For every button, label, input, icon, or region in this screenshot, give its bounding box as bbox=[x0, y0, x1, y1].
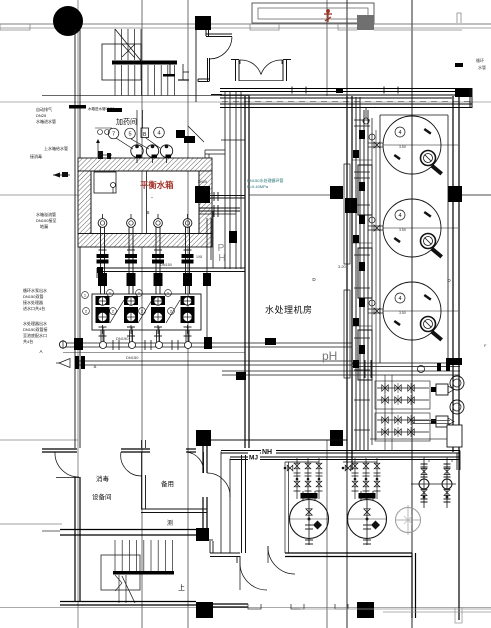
tank hatch right band bbox=[199, 171, 212, 234]
tank room left wall bbox=[346, 96, 348, 470]
svg-text:水管: 水管 bbox=[478, 64, 486, 70]
NH label bbox=[261, 446, 276, 455]
section mark right of stair bbox=[182, 64, 184, 80]
header pipe 3 dashes bbox=[222, 101, 472, 103]
dosing vertical pipes bbox=[384, 375, 386, 450]
riser header left drop bbox=[96, 268, 98, 278]
pipes joining right bbox=[352, 362, 460, 364]
tank T2 actuator bbox=[421, 234, 436, 249]
manifold black block big bbox=[345, 198, 357, 213]
corridor wall from column bbox=[209, 539, 213, 541]
small mark right top bbox=[455, 63, 463, 67]
valve stack pump2 a bbox=[354, 458, 356, 499]
gray jog bottom right bbox=[455, 607, 462, 623]
svg-text:水箱溢流管: 水箱溢流管 bbox=[36, 211, 56, 217]
valve stack pump2 c bbox=[376, 458, 378, 499]
instrument leader lines bbox=[116, 138, 133, 149]
svg-text:循环水泵出水: 循环水泵出水 bbox=[23, 287, 47, 293]
partition hall door arc bbox=[207, 473, 230, 497]
vestibule wall horizontal bbox=[206, 33, 232, 35]
grid line horizontal y524 left bbox=[0, 523, 62, 525]
tank T3 tick SW bbox=[394, 320, 401, 326]
staircase break diagonal bbox=[115, 29, 142, 62]
svg-text:DN150双管: DN150双管 bbox=[23, 293, 43, 299]
suction header flange circles bbox=[100, 342, 107, 349]
svg-text:4: 4 bbox=[398, 130, 401, 136]
main room bottom line y440 bbox=[211, 439, 347, 441]
svg-text:平衡水箱: 平衡水箱 bbox=[140, 180, 174, 190]
header drop with flange circle bbox=[365, 108, 367, 118]
wall line below top column bbox=[195, 30, 197, 102]
svg-text:NH: NH bbox=[262, 449, 272, 456]
staircase chevrons bbox=[115, 575, 122, 583]
svg-text:4: 4 bbox=[157, 131, 160, 137]
tank T2 tick SW bbox=[394, 237, 401, 243]
column marker stair x203 y534 bbox=[196, 528, 209, 541]
manifold vertical pipes bbox=[355, 97, 357, 450]
manifold flange circles bbox=[369, 134, 375, 140]
tank T3 tick NE bbox=[424, 294, 432, 301]
vestibule door arc bbox=[210, 37, 233, 59]
black valves tank top right bbox=[176, 130, 185, 138]
svg-text:备用: 备用 bbox=[161, 479, 174, 488]
svg-text:A: A bbox=[94, 364, 97, 369]
tank T3 actuator bbox=[421, 317, 436, 332]
dosing manifold row 2a bbox=[377, 419, 429, 421]
gray cross pump spare bbox=[404, 516, 412, 524]
tank circle T2 bbox=[383, 199, 441, 257]
vestibule lower wall bbox=[207, 58, 209, 81]
circled 2 labels bbox=[83, 308, 90, 315]
staircase bottom risers bbox=[114, 540, 116, 571]
MJ label bbox=[248, 453, 260, 461]
tank room inner rect bbox=[379, 115, 381, 363]
column marker bottom edge x365 bbox=[357, 602, 374, 618]
tank right taps lower bbox=[199, 207, 240, 209]
double door threshold bbox=[239, 80, 283, 82]
NH pipe right downturn bbox=[456, 453, 458, 470]
svg-text:-: - bbox=[151, 195, 153, 201]
riser lower stubs bbox=[100, 330, 102, 343]
svg-text:DN150: DN150 bbox=[126, 355, 139, 360]
pump spare gray circle bbox=[396, 508, 421, 533]
grid line vertical x327 top bbox=[326, 0, 328, 96]
tank T2 tick NE bbox=[424, 211, 432, 218]
svg-text:DN25: DN25 bbox=[36, 113, 47, 118]
door arc disinfection room bbox=[121, 452, 142, 476]
staircase bottom lower risers bbox=[118, 575, 120, 603]
svg-text:MJ: MJ bbox=[249, 455, 258, 462]
black dash on west wall bbox=[69, 105, 86, 109]
staircase bottom outline bbox=[101, 555, 140, 590]
svg-text:DN25: DN25 bbox=[198, 180, 207, 184]
valve stack pump1 b bbox=[307, 458, 309, 499]
svg-text:4: 4 bbox=[398, 213, 401, 219]
staircase top-left upper risers bbox=[114, 29, 116, 60]
svg-text:进水口共4台: 进水口共4台 bbox=[23, 305, 45, 311]
tank T1 handle bbox=[430, 164, 443, 175]
gray jog top right bbox=[457, 13, 461, 23]
tank right taps upper bbox=[209, 195, 245, 197]
bottom wall center segments bbox=[213, 603, 248, 605]
svg-text:H: H bbox=[218, 253, 225, 264]
wall right of door bbox=[284, 462, 286, 553]
svg-text:1X8: 1X8 bbox=[196, 255, 202, 259]
valve stack pump1 a bbox=[296, 458, 298, 499]
hall east wall pair bbox=[241, 455, 243, 553]
main room top wall line bbox=[211, 94, 222, 96]
threshold marks bottom bbox=[248, 604, 261, 609]
manifold chase rect 3 bbox=[358, 330, 372, 380]
tank room right wall bbox=[452, 96, 454, 452]
grid line vertical x327 bottom bbox=[326, 440, 328, 628]
svg-text:5: 5 bbox=[128, 132, 131, 138]
staircase top-left outline bbox=[102, 44, 141, 80]
tank black block right wall bbox=[195, 186, 210, 203]
open rect right wall bbox=[447, 425, 462, 447]
suction header pipe bbox=[60, 342, 352, 344]
tank T1 actuator bbox=[421, 151, 436, 166]
middle thin pipe line bbox=[63, 352, 245, 354]
pump risers through hatch bbox=[100, 227, 102, 294]
svg-text:B: B bbox=[143, 132, 147, 138]
dose pump axis line bbox=[411, 483, 456, 485]
pump P1 circle bbox=[290, 500, 329, 539]
pump P2 circle bbox=[348, 500, 387, 539]
svg-text:o: o bbox=[428, 459, 430, 463]
west door arc bbox=[55, 452, 79, 477]
suction header valve bbox=[74, 338, 83, 350]
third pipe to right bbox=[222, 370, 460, 372]
grid line horizontal y440 left bbox=[0, 439, 78, 441]
svg-text:3.50: 3.50 bbox=[399, 228, 406, 232]
grid line horizontal y96 bbox=[42, 95, 250, 97]
tank T2 label circled 4 bbox=[395, 210, 405, 220]
partition pair stub above wall bbox=[141, 440, 143, 448]
stair landing glyph bbox=[169, 62, 171, 76]
circled 1 labels bbox=[82, 292, 89, 299]
door arc spare room bbox=[186, 452, 204, 473]
small pipe left of tank bbox=[97, 140, 99, 158]
pump unit internals bbox=[96, 296, 110, 305]
column marker bottom wall x336 bbox=[330, 430, 343, 446]
bottom wall left bbox=[60, 601, 196, 603]
branch bowtie pump2 bbox=[345, 465, 351, 471]
suction header tick pairs bbox=[112, 340, 114, 350]
dose pump D1 bbox=[423, 460, 425, 508]
header pipe 2 bbox=[220, 94, 472, 96]
manifold black marks bbox=[359, 130, 365, 139]
gray wall stub A bbox=[250, 24, 279, 30]
svg-text:DN150: DN150 bbox=[116, 336, 129, 341]
tank hatch top band bbox=[78, 158, 212, 171]
column marker bottom edge x204 bbox=[196, 602, 213, 618]
svg-text:B: B bbox=[146, 210, 149, 215]
tank T2 horizontal axis bbox=[383, 227, 458, 229]
manifold long chase left bbox=[344, 164, 350, 264]
column marker bottom wall x203 bbox=[196, 430, 211, 446]
staircase bottom tread bar bbox=[113, 571, 174, 575]
grid line vertical x142 bbox=[141, 0, 143, 628]
partition pair below door bbox=[141, 475, 143, 509]
roof outline rect inner bbox=[258, 8, 368, 19]
NH pipe bbox=[221, 450, 460, 452]
tank T3 handle bbox=[430, 330, 443, 341]
staircase top-left lower risers bbox=[114, 65, 116, 96]
gray wall stub C left edge bbox=[0, 24, 30, 30]
svg-text:3.50: 3.50 bbox=[399, 311, 406, 315]
grid line horizontal y608 bbox=[0, 607, 491, 609]
dosing manifold box 2 bbox=[375, 413, 430, 441]
long wall y553 bbox=[285, 552, 412, 554]
tank inner rect bbox=[91, 171, 199, 234]
staircase top-left tread bar bbox=[112, 61, 177, 65]
staircase bottom diagonal bbox=[122, 576, 135, 603]
svg-text:DN100接至: DN100接至 bbox=[36, 217, 56, 223]
tank T3 label circled 4 bbox=[395, 293, 405, 303]
tank T2 handle bbox=[430, 247, 443, 258]
manifold tick rows bbox=[354, 119, 370, 121]
red figure bbox=[324, 10, 332, 22]
discharge header arrow end bbox=[59, 359, 70, 368]
corridor wall y451 segment A bbox=[42, 448, 77, 450]
suction header end circle bbox=[59, 341, 66, 348]
svg-text:水箱进水管: 水箱进水管 bbox=[36, 118, 56, 124]
discharge header valve bbox=[75, 356, 79, 369]
column marker tank room y194 bbox=[448, 186, 462, 202]
dose pump D2 bbox=[446, 460, 448, 508]
tank T1 tick SW bbox=[394, 154, 401, 160]
manifold crossties bbox=[352, 159, 372, 161]
svg-text:消毒: 消毒 bbox=[96, 474, 110, 483]
tank hatch bottom band bbox=[78, 234, 212, 248]
tank T3 horizontal axis bbox=[383, 310, 458, 312]
header valve tick 1 bbox=[336, 88, 343, 93]
dosing manifold row 1b bbox=[377, 399, 429, 401]
tank divider bbox=[146, 171, 148, 234]
instrument circles row bbox=[131, 145, 143, 157]
riser header DN150 bbox=[97, 267, 245, 269]
svg-text:至池底配水口: 至池底配水口 bbox=[23, 332, 47, 338]
grid line vertical x188 bbox=[187, 0, 189, 628]
roof outline rect outer bbox=[252, 3, 374, 23]
corridor wall y451 segment B bbox=[121, 448, 150, 450]
black dash above label bbox=[107, 108, 122, 112]
small valve pair top bbox=[95, 127, 112, 129]
svg-text:A: A bbox=[39, 349, 42, 354]
tank T1 label circled 4 bbox=[395, 127, 405, 137]
pump units outer rect bbox=[92, 294, 201, 330]
svg-text:水处理器出水: 水处理器出水 bbox=[23, 320, 47, 326]
double door left leaf arc bbox=[240, 60, 261, 75]
svg-text:测: 测 bbox=[167, 519, 173, 527]
header pipe 3 bbox=[220, 103, 472, 105]
valve stack pump2 b bbox=[365, 458, 367, 499]
dosing funnels bbox=[450, 376, 464, 390]
door arc bottom 2 bbox=[268, 546, 295, 574]
circled 4 top bbox=[154, 127, 165, 138]
vestibule bottom stub bbox=[198, 78, 210, 80]
grid line horizontal y24 bbox=[0, 23, 491, 25]
boxed B bbox=[141, 128, 149, 138]
double door jamb left bbox=[235, 60, 237, 82]
wall pair below circle bbox=[74, 29, 76, 448]
column marker main room y192 bbox=[330, 186, 343, 199]
svg-text:4: 4 bbox=[398, 296, 401, 302]
corridor wall y451 segment C bbox=[186, 448, 196, 450]
dosing manifold row 2b bbox=[377, 431, 429, 433]
door arc bottom 1 bbox=[240, 563, 267, 590]
manifold extra black marks bbox=[353, 150, 359, 158]
svg-text:DN150双管接: DN150双管接 bbox=[23, 326, 47, 332]
ce wall thin extension left bbox=[42, 530, 60, 532]
gray wall stub B bbox=[338, 24, 357, 30]
wall x412 bottom bbox=[411, 553, 413, 618]
manifold chase rect 1 bbox=[358, 165, 372, 215]
svg-text:加药间: 加药间 bbox=[116, 117, 137, 126]
svg-text:P=0.40MPa: P=0.40MPa bbox=[247, 184, 269, 189]
partition wall x205 lower bbox=[202, 497, 204, 530]
svg-text:pH: pH bbox=[322, 349, 337, 363]
svg-text:共4台: 共4台 bbox=[23, 338, 33, 344]
gray column square top bbox=[357, 15, 374, 30]
manifold chase rect 2 bbox=[358, 248, 372, 298]
header pipe 1 bbox=[220, 88, 472, 90]
tank T1 tick NE bbox=[424, 128, 432, 135]
header flange ticks bbox=[291, 87, 293, 94]
svg-text:循环: 循环 bbox=[476, 57, 484, 63]
main room interior line y195 bbox=[249, 194, 330, 196]
circled 7 bbox=[108, 128, 119, 139]
staircase break cross bbox=[122, 44, 135, 58]
dosing pump squares bbox=[436, 384, 448, 395]
discharge header pipe bbox=[75, 360, 352, 362]
ce room bottom wall bbox=[60, 529, 205, 531]
dosing manifold box 1 bbox=[375, 381, 430, 409]
right wall black tick bbox=[446, 358, 462, 365]
svg-text:水处理机房: 水处理机房 bbox=[265, 304, 313, 315]
vertical pipe bundle bbox=[224, 91, 226, 269]
header pipe end cap right bbox=[455, 88, 472, 97]
double door right leaf arc bbox=[261, 60, 282, 75]
bundle valve mark bbox=[229, 231, 237, 243]
filled column circle top-left bbox=[54, 7, 83, 36]
bundle flange ticks bbox=[221, 139, 245, 141]
bundle drop x213 bbox=[212, 211, 214, 268]
bundle elbow to tank mid bbox=[205, 149, 225, 151]
overflow pipe right bbox=[206, 218, 208, 343]
valve stack pump1 c bbox=[318, 458, 320, 499]
svg-text:o: o bbox=[451, 459, 453, 463]
svg-text:DN150水处理循环管: DN150水处理循环管 bbox=[247, 177, 283, 183]
svg-text:接水处理器: 接水处理器 bbox=[23, 299, 43, 305]
tank float valve box bbox=[94, 172, 116, 193]
grid line horizontal y195 right bbox=[453, 194, 491, 196]
partition wall x205 upper bbox=[202, 446, 204, 473]
suction bells inside tank bbox=[102, 214, 104, 219]
tank top band fittings bbox=[98, 151, 103, 159]
MJ pipe bbox=[230, 456, 460, 458]
svg-text:上: 上 bbox=[178, 583, 185, 592]
grid line vertical x412 bbox=[411, 0, 413, 628]
pipe black mark left wall bbox=[236, 372, 246, 380]
vestibule wall vertical from column bbox=[205, 30, 207, 36]
circled 5 bbox=[125, 128, 136, 139]
svg-text:地漏: 地漏 bbox=[40, 223, 48, 229]
svg-text:a: a bbox=[446, 456, 448, 460]
gray pipes bottom right bbox=[300, 608, 491, 610]
right pipe fittings bbox=[418, 366, 425, 373]
ce room top wall bbox=[141, 508, 207, 510]
MJ pipe left jog bbox=[229, 459, 231, 554]
tap flange ticks bbox=[213, 192, 215, 201]
grid line horizontal y195 left bbox=[0, 194, 80, 196]
tank circle T1 bbox=[383, 116, 441, 174]
svg-text:接消毒: 接消毒 bbox=[30, 153, 42, 159]
svg-text:a: a bbox=[423, 456, 425, 460]
svg-text:设备间: 设备间 bbox=[92, 492, 112, 501]
riser connectors pumps bbox=[285, 461, 319, 463]
svg-text:3.20: 3.20 bbox=[338, 264, 347, 269]
tank T1 horizontal axis bbox=[383, 144, 458, 146]
overflow junction black bbox=[204, 337, 212, 349]
svg-text:DN150: DN150 bbox=[160, 263, 172, 267]
pipe hash main room bbox=[265, 338, 276, 345]
tank circle T3 bbox=[383, 282, 441, 340]
left leader arrow bbox=[53, 174, 70, 176]
svg-text:3.50: 3.50 bbox=[399, 145, 406, 149]
NH pipe left jog bbox=[220, 452, 222, 554]
west wall lower bbox=[74, 477, 76, 601]
main room left wall bbox=[244, 96, 246, 448]
svg-text:7: 7 bbox=[112, 132, 115, 138]
unit diagonal leaders bbox=[110, 300, 124, 323]
tank connectors bbox=[368, 142, 383, 144]
grid line horizontal y102 bbox=[0, 101, 491, 103]
column marker top x203 bbox=[195, 16, 211, 30]
tank hatch left band bbox=[78, 171, 91, 234]
double door jamb right bbox=[282, 60, 284, 82]
dosing manifold row 1a bbox=[377, 387, 429, 389]
instrument riser lines bbox=[136, 110, 138, 145]
grid line vertical x78 bbox=[77, 0, 79, 628]
branch bowtie pump1 bbox=[287, 465, 293, 471]
svg-text:上水箱给水管: 上水箱给水管 bbox=[44, 145, 68, 151]
line y439 bbox=[370, 438, 447, 440]
grid line horizontal y28 bbox=[0, 27, 491, 29]
line y421 right bbox=[412, 420, 450, 422]
svg-text:自动排气: 自动排气 bbox=[36, 106, 52, 112]
grid line vertical x347 bbox=[346, 0, 348, 628]
